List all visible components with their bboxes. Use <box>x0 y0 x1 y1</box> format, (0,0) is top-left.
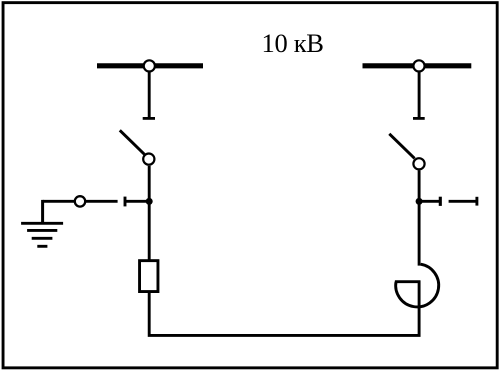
svg-text:10 кВ: 10 кВ <box>262 28 324 58</box>
